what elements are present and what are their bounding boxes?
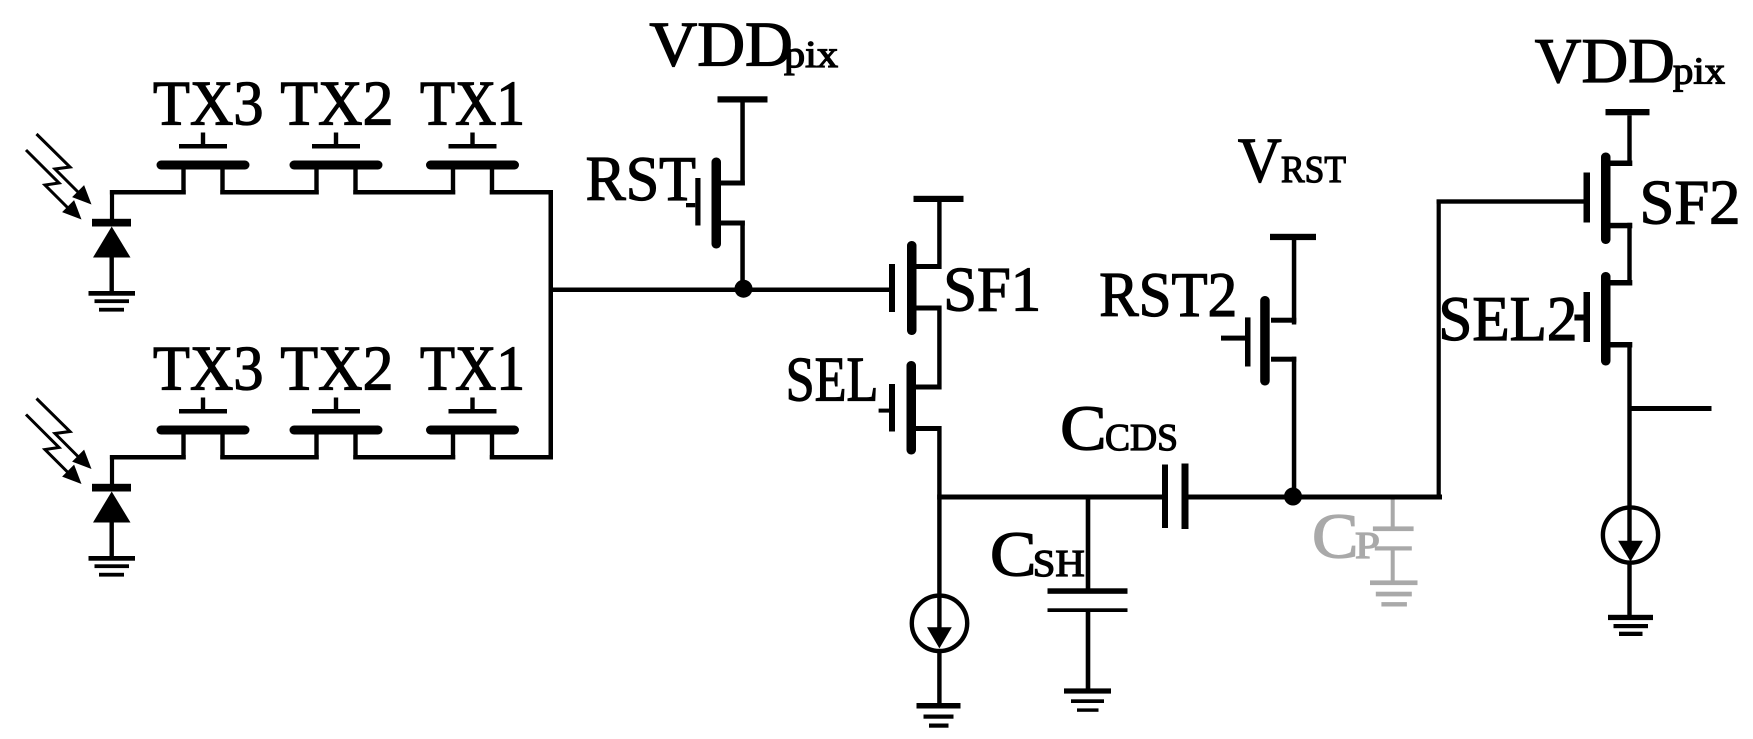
svg-text:V: V	[1238, 125, 1282, 196]
svg-text:VDD: VDD	[649, 9, 793, 80]
transistor TX3 (bottom row)	[157, 398, 250, 460]
svg-text:C: C	[990, 519, 1037, 590]
ground of PD2	[89, 556, 136, 577]
current source I2	[1603, 507, 1658, 562]
wire I2 to ground	[1627, 563, 1631, 615]
capacitor CCDS	[1162, 464, 1189, 530]
wire TX1 to FD corner (bottom row)	[490, 455, 553, 460]
wire VDD to RST drain	[740, 103, 745, 186]
light arrows into photodiode PD1	[26, 134, 92, 220]
wire corner up to SF2 gate	[1437, 200, 1441, 500]
svg-text:P: P	[1355, 525, 1380, 567]
power VRST bar	[1270, 234, 1316, 240]
transistor TX1 (bottom row)	[426, 398, 519, 460]
svg-text:TX2: TX2	[280, 333, 393, 404]
svg-text:RST: RST	[1281, 149, 1346, 191]
svg-text:pix: pix	[1673, 50, 1725, 92]
transistor SF2	[1584, 153, 1633, 245]
transistor SF1	[889, 241, 941, 335]
wire TX2 to TX1	[353, 190, 455, 195]
svg-text:TX2: TX2	[280, 68, 393, 139]
wire output stub	[1630, 406, 1712, 411]
ground of PD1	[89, 291, 136, 312]
transistor RST2	[1221, 296, 1296, 386]
wire TX2 to TX1 (bottom row)	[353, 455, 455, 460]
ground of CSH	[1064, 688, 1111, 711]
svg-text:TX1: TX1	[420, 333, 525, 404]
wire VRST to RST2 drain	[1292, 240, 1297, 325]
svg-text:TX3: TX3	[153, 333, 264, 404]
light arrows into photodiode PD2	[26, 399, 92, 485]
wire TX3 to TX2	[220, 190, 318, 195]
svg-text:SEL2: SEL2	[1438, 283, 1577, 354]
wire CSH to ground	[1086, 612, 1091, 690]
wire I1 to ground	[937, 651, 941, 704]
wire RST2 source to node	[1292, 357, 1297, 494]
svg-text:pix: pix	[784, 34, 838, 76]
wire SF1 source to SEL drain	[937, 306, 941, 390]
svg-text:TX1: TX1	[420, 68, 525, 139]
svg-text:CDS: CDS	[1105, 417, 1178, 459]
current source I1	[912, 596, 967, 651]
transistor RST	[686, 158, 745, 249]
svg-text:SEL: SEL	[786, 344, 879, 415]
svg-text:TX3: TX3	[153, 68, 264, 139]
photodiode PD2	[92, 455, 131, 557]
wire VDD to SF2 drain	[1627, 115, 1631, 166]
ground of I2	[1608, 615, 1653, 636]
ground of CP (gray)	[1370, 580, 1418, 606]
svg-text:RST2: RST2	[1099, 259, 1237, 330]
svg-text:SF2: SF2	[1640, 166, 1741, 237]
wire SEL2 source down to current source I2	[1627, 342, 1631, 545]
node FD junction dot	[735, 280, 753, 298]
svg-text:C: C	[1060, 392, 1107, 463]
wire CCDS to corner	[1189, 495, 1443, 500]
ground of I1	[917, 703, 961, 728]
power VDDpix bar (SF1)	[914, 196, 964, 202]
transistor TX1 (top row)	[426, 133, 519, 195]
svg-text:SF1: SF1	[943, 254, 1041, 325]
svg-text:RST: RST	[586, 143, 696, 214]
capacitor CP (parasitic, gray)	[1373, 500, 1414, 581]
photodiode PD1	[92, 190, 131, 292]
wire to CSH capacitor	[1086, 500, 1091, 589]
transistor TX2 (top row)	[290, 133, 383, 195]
svg-text:SH: SH	[1033, 543, 1085, 585]
svg-text:C: C	[1312, 501, 1359, 572]
wire SEL source down to current source	[937, 426, 941, 640]
wire SF2 source to SEL2 drain	[1627, 223, 1631, 286]
transistor TX2 (bottom row)	[290, 398, 383, 460]
power VDDpix bar (right)	[1606, 109, 1650, 115]
power VDDpix bar (left)	[718, 96, 768, 102]
wire output node 1 horizontal	[937, 495, 1162, 500]
wire vertical joining both rows	[549, 190, 554, 460]
wire TX3 to TX2 (bottom row)	[220, 455, 318, 460]
node dot at RST2 source	[1284, 488, 1302, 506]
wire PD1 to TX3	[110, 190, 186, 195]
wire to SF2 gate horizontal	[1437, 199, 1584, 203]
wire PD2 to TX3 (bottom row)	[110, 455, 186, 460]
wire TX1 to FD corner	[490, 190, 553, 195]
wire FD node horizontal	[549, 288, 890, 293]
transistor TX3 (top row)	[157, 133, 250, 195]
svg-text:VDD: VDD	[1535, 25, 1675, 96]
wire RST source to FD node	[740, 221, 745, 290]
capacitor CSH	[1048, 588, 1128, 612]
transistor SEL	[879, 361, 941, 455]
wire VDD to SF1 drain	[937, 202, 941, 269]
transistor SEL2	[1574, 272, 1632, 366]
